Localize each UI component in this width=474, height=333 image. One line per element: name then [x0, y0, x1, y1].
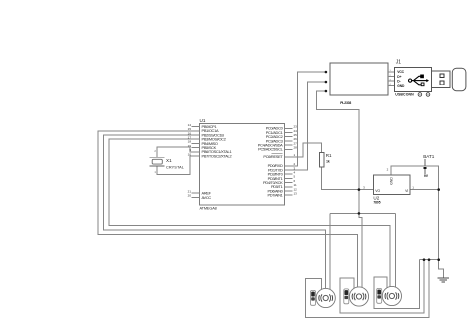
- U1 pin 20 AVCC: [192, 196, 200, 198]
- U1 pin 10 PB7/TOSC2/XTAL2: [192, 155, 200, 157]
- wire crystal X1 top to XTAL1 pin 9: [157, 147, 200, 157]
- svg-text:PC6/RESET: PC6/RESET: [263, 154, 283, 159]
- buzzer disc and sound arcs: [382, 286, 401, 305]
- U1 pin 14 PB0/ICP1: [192, 126, 200, 128]
- U1 pin 9 PB6/TOSC1/XTAL1: [192, 151, 200, 153]
- wire rail to buzzer LS3 right pin: [395, 213, 397, 287]
- wire TXD: PL2303 pin to PD1: [293, 82, 326, 170]
- svg-text:2: 2: [387, 167, 389, 171]
- U1 pin 21 AREF: [192, 192, 200, 194]
- crystal X1: [150, 149, 185, 174]
- svg-text:3: 3: [363, 186, 365, 190]
- node PL2303 RXD pin dot: [325, 71, 328, 74]
- svg-text:D+: D+: [397, 75, 401, 79]
- svg-text:7805: 7805: [373, 201, 380, 205]
- RESET overline: [272, 153, 283, 155]
- junction ground bus A: [423, 258, 426, 261]
- U1 pin 25 PC2/ADC2: [285, 136, 293, 138]
- U1 pin 11 PD5/T1: [285, 186, 293, 188]
- svg-text:PL2303: PL2303: [340, 101, 351, 105]
- R1 body: [320, 152, 324, 167]
- svg-text:U1: U1: [200, 118, 206, 123]
- BAT1 leads and plates: [424, 159, 426, 166]
- junction VI / ground column: [437, 188, 440, 191]
- junction ground bus B: [428, 258, 431, 261]
- U1 pin 26 PC3/ADC3: [285, 140, 293, 142]
- buzzer LS3: [377, 286, 402, 305]
- svg-text:VO: VO: [375, 189, 380, 193]
- node PL2303 VCC pin dot: [325, 90, 328, 93]
- svg-text:D-: D-: [397, 79, 400, 83]
- svg-text:ATMEGA8: ATMEGA8: [200, 206, 217, 210]
- svg-text:13: 13: [294, 192, 298, 196]
- wire return path buzzer LS1: [305, 260, 429, 318]
- svg-text:GND: GND: [389, 177, 393, 185]
- svg-text:AVCC: AVCC: [202, 195, 212, 200]
- U1 pin 24 PC1/ADC1: [285, 132, 293, 134]
- junction 5V rail: [358, 212, 361, 215]
- PL2303 body: [330, 63, 388, 95]
- J1 mounting holes: [418, 93, 422, 97]
- buzzer LS2: [344, 287, 369, 306]
- wire PB1 loop to buzzer LS2 left pin: [98, 131, 358, 288]
- wire U2 VI pin to node: [410, 189, 439, 191]
- buzzer disc and sound arcs: [316, 288, 335, 307]
- wire 5V rail above buzzers: [330, 212, 396, 214]
- svg-text:10: 10: [188, 152, 192, 156]
- U1 pin 5 PD3/INT1: [285, 177, 293, 179]
- U1 pin 18 PB4/MISO: [192, 142, 200, 144]
- wire RESET net: U1 pin 1 to R1 top: [293, 143, 322, 157]
- U1 body: [200, 124, 285, 206]
- wire VCC: PL2303 pin down to 5V rail: [317, 91, 359, 213]
- wire PB3 loop to buzzer LS3 left pin: [109, 139, 390, 287]
- USB connector J1 USBCONN: [388, 59, 466, 96]
- wire PB2 loop to buzzer LS1 left pin: [104, 135, 326, 289]
- svg-text:CRYSTAL: CRYSTAL: [166, 166, 184, 170]
- U1 pin 4 PD2/INT0: [285, 173, 293, 175]
- IC U1 ATMEGA8 microcontroller: [188, 118, 298, 211]
- USB plug body: [432, 71, 450, 87]
- svg-text:28: 28: [294, 146, 298, 150]
- J1 body: [395, 67, 432, 91]
- buzzer LS1: [311, 288, 336, 307]
- buzzer label box: [311, 290, 316, 305]
- svg-text:9V: 9V: [424, 174, 429, 178]
- J1 pin 2 wire: [388, 76, 395, 78]
- wire ground bus: [419, 259, 438, 261]
- wire crystal X1 bottom to XTAL2 pin 10: [157, 156, 200, 175]
- U1 pin 12 PD6/AIN0: [285, 190, 293, 192]
- svg-text:GND: GND: [397, 84, 405, 88]
- J1 pin 1 wire: [388, 71, 395, 73]
- svg-text:R1: R1: [326, 153, 332, 158]
- USB-serial module PL2303: [330, 63, 388, 105]
- wire return path buzzer LS2: [340, 260, 424, 313]
- buzzer label box: [377, 288, 382, 303]
- svg-text:PC5/ADC5/SCL: PC5/ADC5/SCL: [258, 147, 283, 152]
- J1 pin 4 wire: [388, 85, 395, 87]
- wire R1 bottom to U2 VO: [322, 167, 374, 190]
- buzzer disc and sound arcs: [349, 287, 368, 306]
- svg-text:X1: X1: [166, 158, 172, 163]
- svg-text:2: 2: [154, 149, 156, 153]
- voltage regulator U2 7805: [363, 167, 414, 204]
- svg-text:PB7/TOSC2/XTAL2: PB7/TOSC2/XTAL2: [202, 153, 232, 158]
- U1 pin 15 PB1/OC1A: [192, 130, 200, 132]
- U1 pin 1 PC6/RESET: [285, 156, 293, 158]
- svg-text:PD7/AIN1: PD7/AIN1: [267, 193, 282, 198]
- svg-text:1: 1: [154, 170, 156, 174]
- U1 pin 19 PB5/SCK: [192, 147, 200, 149]
- U1 pin 13 PD7/AIN1: [285, 194, 293, 196]
- svg-text:USBCONN: USBCONN: [395, 93, 414, 97]
- svg-text:VI: VI: [405, 189, 408, 193]
- svg-text:BAT1: BAT1: [423, 154, 435, 159]
- U1 pin 6 PD4/T0/XCK: [285, 182, 293, 184]
- U1 pin 16 PB2/SS/OC1B: [192, 134, 200, 136]
- wire U2 GND pin up and right to battery node then down: [391, 166, 439, 260]
- junction VO wire / 5V drop: [358, 188, 361, 191]
- wire RXD: PL2303 pin to PD0: [293, 72, 326, 166]
- U2 body: [373, 175, 410, 195]
- svg-text:VCC: VCC: [397, 70, 404, 74]
- USB trident symbol: [412, 80, 427, 82]
- svg-text:J1: J1: [396, 59, 402, 65]
- ground: [438, 278, 449, 282]
- svg-text:20: 20: [188, 194, 192, 198]
- U1 pin 27 PC4/ADC4/SDA: [285, 144, 293, 146]
- U1 pin 3 PD1/TXD: [285, 169, 293, 171]
- buzzer label box: [344, 289, 349, 304]
- U1 pin 28 PC5/ADC5/SCL: [285, 148, 293, 150]
- svg-text:1: 1: [412, 186, 414, 190]
- U1 pin 17 PB3/MOSI/OC2: [192, 138, 200, 140]
- U1 pin 2 PD0/RXD: [285, 165, 293, 167]
- J1 pin 3 wire: [388, 80, 395, 82]
- battery BAT1: [423, 154, 435, 178]
- U1 pin 23 PC0/ADC0: [285, 127, 293, 129]
- wire return path buzzer LS3: [374, 260, 420, 309]
- node PL2303 TXD pin dot: [325, 81, 328, 84]
- X1 plates and body: [150, 156, 165, 158]
- wire rail jog to buzzer LS2 right pin: [359, 213, 362, 288]
- resistor R1: [320, 152, 332, 167]
- junction ground bus C: [437, 258, 440, 261]
- wire to ground symbol: [439, 260, 444, 278]
- wire rail to buzzer LS1 right pin: [329, 213, 331, 289]
- svg-text:1k: 1k: [326, 159, 330, 163]
